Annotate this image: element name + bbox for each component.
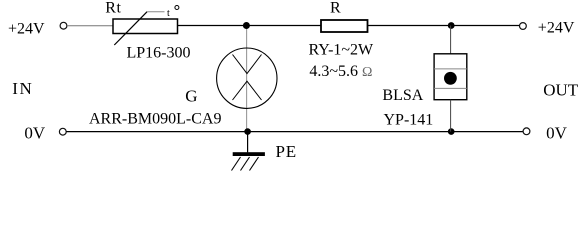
- svg-text:G: G: [185, 86, 197, 105]
- svg-text:OUT: OUT: [543, 80, 579, 99]
- resistor R body: [321, 20, 368, 32]
- svg-text:4.3~5.6 Ω: 4.3~5.6 Ω: [309, 63, 372, 80]
- svg-text:ARR-BM090L-CA9: ARR-BM090L-CA9: [89, 111, 221, 128]
- svg-text:Rt: Rt: [105, 0, 121, 17]
- svg-text:IN: IN: [12, 79, 33, 98]
- wire terminal to Rt: [67, 25, 114, 27]
- terminal top-left: [60, 22, 67, 29]
- junction bottom of G: [244, 128, 251, 135]
- arrester G circle: [217, 48, 277, 108]
- svg-text:BLSA: BLSA: [382, 87, 423, 104]
- resistor Rt diagonal stroke: [114, 12, 147, 45]
- ground hatch 3: [250, 157, 259, 171]
- arrester G top arrow: [233, 55, 262, 74]
- svg-text:0V: 0V: [24, 124, 46, 143]
- varistor BLSA dot: [444, 72, 457, 85]
- svg-text:PE: PE: [276, 142, 297, 161]
- resistor Rt horizontal tail: [147, 11, 164, 13]
- wire BLSA top lead: [450, 26, 452, 54]
- terminal bottom-left: [59, 128, 66, 135]
- ground hatch 2: [241, 157, 250, 171]
- svg-text:LP16-300: LP16-300: [127, 45, 191, 62]
- junction top of BLSA: [448, 22, 455, 29]
- junction top of G: [243, 22, 250, 29]
- varistor BLSA inner line upper: [434, 68, 467, 70]
- varistor BLSA body: [434, 54, 467, 100]
- wire BLSA bottom lead: [450, 100, 452, 132]
- degree mark: [175, 6, 179, 10]
- svg-text:0V: 0V: [546, 123, 568, 142]
- junction bottom of BLSA: [448, 128, 455, 135]
- varistor BLSA inner line lower: [434, 87, 467, 89]
- ground PE bar: [233, 152, 265, 156]
- wire vertical through G: [246, 26, 248, 132]
- terminal bottom-right: [523, 128, 530, 135]
- wire to PE ground: [247, 132, 249, 153]
- svg-text:YP-141: YP-141: [384, 111, 434, 128]
- wire R to right terminal: [368, 25, 520, 27]
- wire Rt to R: [178, 25, 321, 27]
- svg-text:+24V: +24V: [538, 19, 575, 36]
- ground hatch 1: [232, 157, 241, 171]
- svg-text:t: t: [167, 8, 170, 19]
- resistor Rt (thermistor) body: [113, 19, 178, 34]
- wire bottom rail: [66, 131, 523, 133]
- arrester G bottom arrow: [233, 81, 262, 100]
- terminal top-right: [520, 23, 527, 30]
- svg-text:R: R: [330, 0, 341, 16]
- svg-text:RY-1~2W: RY-1~2W: [309, 42, 375, 59]
- svg-text:+24V: +24V: [8, 20, 45, 37]
